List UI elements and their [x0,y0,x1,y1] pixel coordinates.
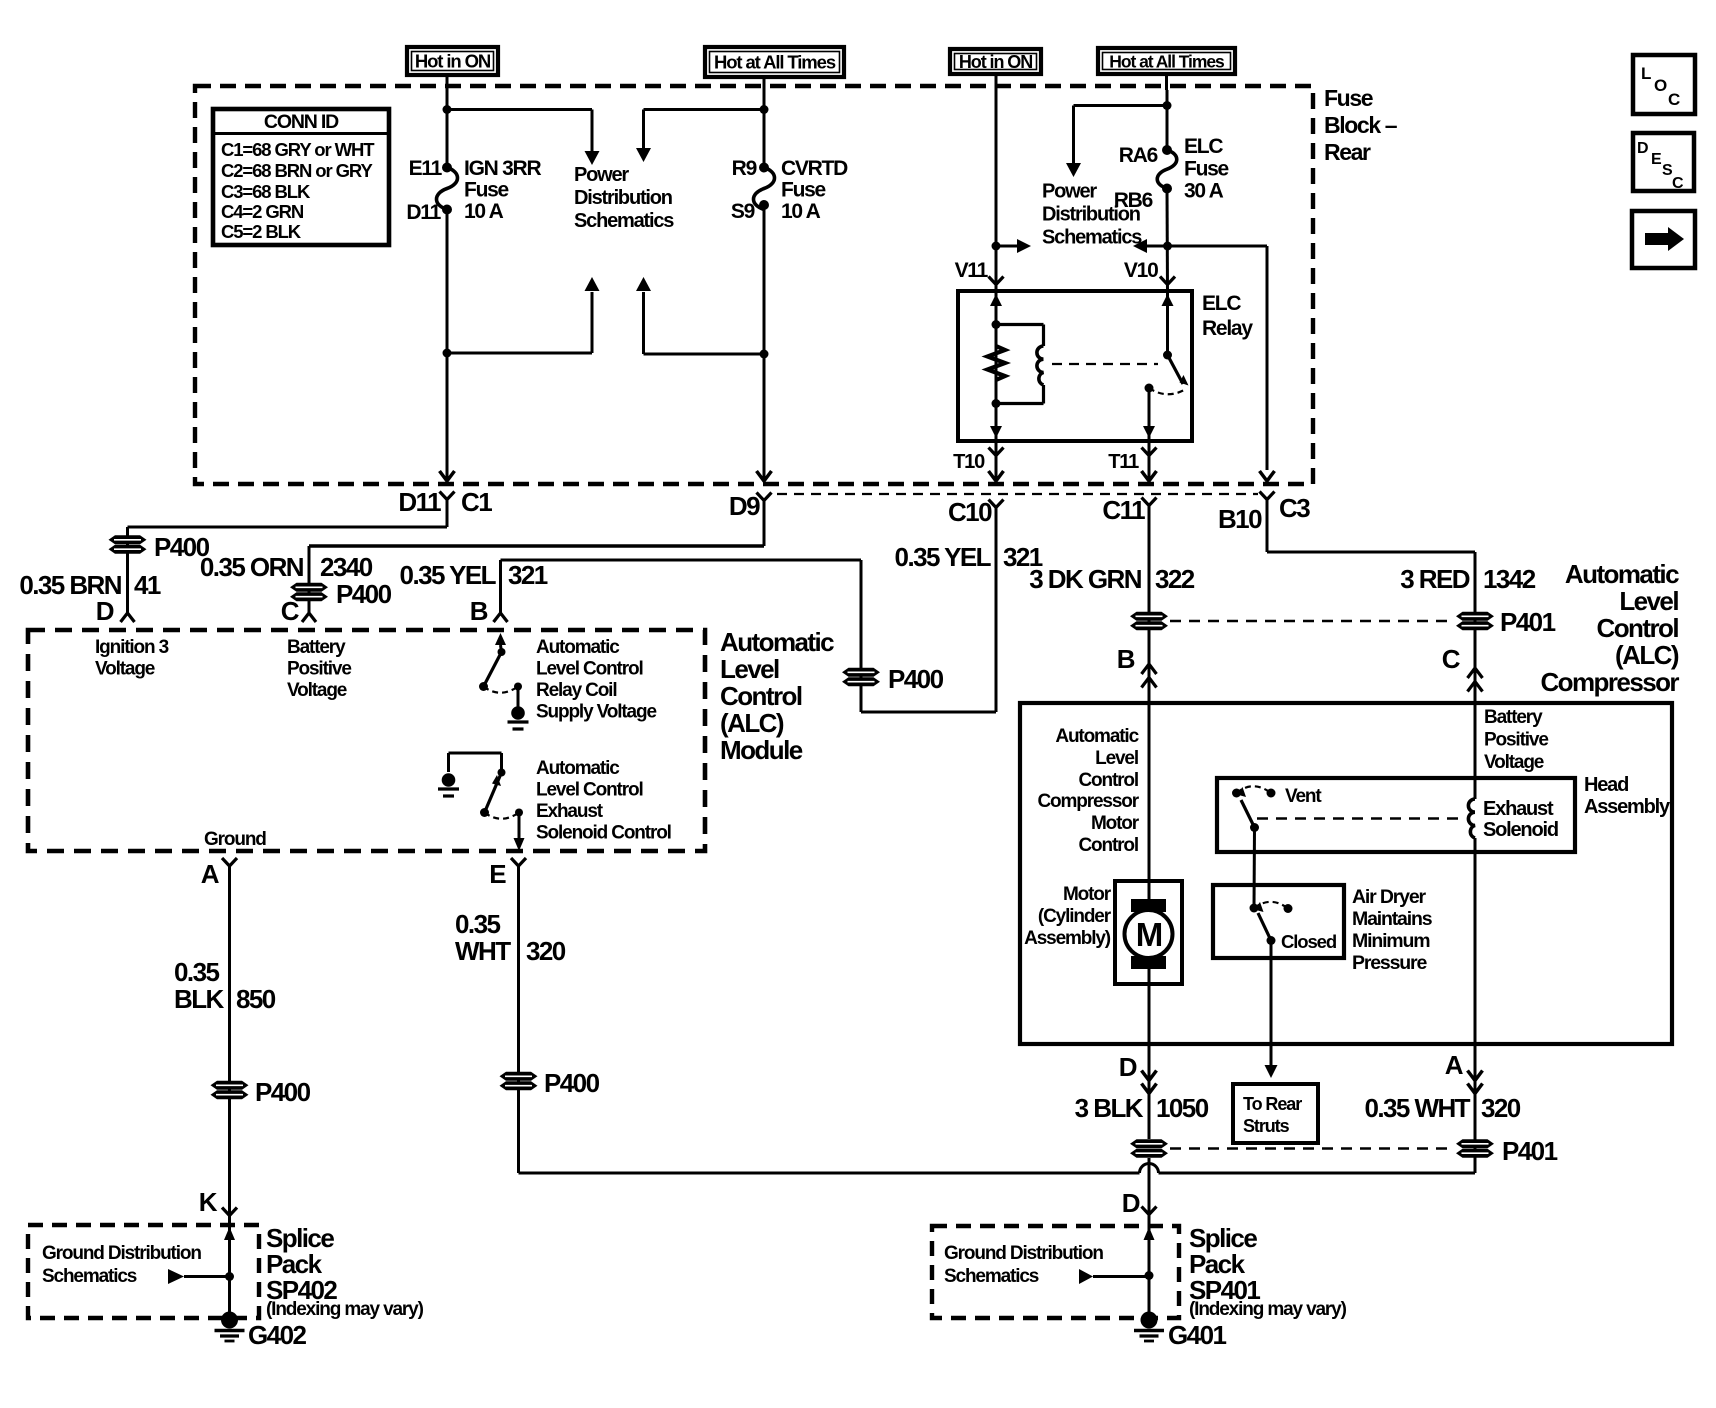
wire 3 RED 1342 from C3 to compressor C [1267,500,1475,800]
svg-text:(Indexing may vary): (Indexing may vary) [266,1299,424,1320]
wire fuse CVRTD down to connector D9 [757,205,772,481]
wire Hot in ON to fuse IGN 3RR [446,75,449,168]
svg-text:321: 321 [508,560,548,590]
label Motor (Cylinder Assembly) [1024,884,1112,949]
relay switch (V10-T11) [1143,291,1189,441]
svg-text:Power: Power [574,164,629,186]
svg-text:Compressor: Compressor [1540,667,1679,697]
label 0.35 YEL 321 (near module) [400,560,548,590]
label Battery Positive Voltage (module) [287,637,351,701]
wire vent switch to air dryer switch [1253,828,1257,909]
wire exhaust solenoid down to pin A [1474,838,1477,1158]
svg-text:Minimum: Minimum [1352,930,1430,952]
power label box Hot at All Times (left) [705,47,844,77]
svg-text:Control: Control [720,681,802,711]
connector T10 [953,448,1003,474]
svg-text:Automatic: Automatic [536,758,620,779]
wire Hot in ON (right) to relay pin V11 [995,74,998,291]
wire 0.35 WHT 320 from module E to compressor A [519,866,1476,1173]
relay mechanical dashed link [1052,363,1158,365]
label 0.35 YEL 321 (near C10) [895,542,1043,572]
label Vent [1285,786,1322,807]
connector pin D splice pack SP401 [1122,1188,1157,1218]
connector P401 on WHT wire (bottom) [1456,1136,1558,1166]
svg-text:A: A [1445,1050,1464,1080]
svg-text:P401: P401 [1502,1136,1558,1166]
label 0.35 WHT 320 (left) [455,909,566,966]
svg-text:ELC: ELC [1202,292,1241,315]
label pin C of module [281,596,300,626]
svg-text:Positive: Positive [287,659,351,680]
svg-text:C3=68 BLK: C3=68 BLK [221,181,311,202]
wire Hot at All Times (right) to ELC fuse [1165,74,1169,150]
svg-text:Module: Module [720,735,803,765]
label box To Rear Struts [1233,1084,1318,1143]
svg-text:WHT: WHT [455,936,511,966]
node junction on IGN feed [443,105,452,114]
svg-text:C: C [1668,90,1680,109]
connector C10 [948,497,1004,527]
wire splice tap SP402 [168,1269,234,1284]
svg-text:2340: 2340 [320,552,373,582]
wire splice tap SP401 [1079,1269,1154,1284]
node junction on CVRTD feed [760,105,769,114]
svg-text:C: C [1442,644,1461,674]
svg-text:C10: C10 [948,497,992,527]
wire T10 through fuse block edge [989,441,1004,481]
svg-text:Level Control: Level Control [536,659,643,680]
relay resistor [988,346,1006,380]
svg-text:Control: Control [1078,835,1138,856]
svg-text:Hot at All Times: Hot at All Times [1109,51,1225,71]
label Closed [1281,931,1337,952]
connector P401 dashed pairing line (bottom) [1170,1147,1455,1149]
svg-text:Exhaust: Exhaust [1483,798,1554,820]
label Automatic Level Control Compressor Motor Control [1037,726,1139,856]
wire 3 DK GRN 322 from C11 to compressor B [1148,506,1151,704]
svg-text:Maintains: Maintains [1352,908,1433,930]
motor M (cylinder assembly) [1115,881,1182,984]
svg-text:C3: C3 [1279,493,1310,523]
label 3 BLK 1050 [1075,1093,1209,1123]
wire up-arrow pair from IGN feed to power distribution [443,277,600,358]
wire compressor C battery feed into head assembly [1474,703,1477,799]
wire arrow toward power distribution (from V11 feed) [996,239,1031,253]
svg-text:A: A [201,859,220,889]
head assembly box [1217,778,1575,852]
svg-text:Level: Level [720,654,779,684]
svg-text:C: C [281,596,300,626]
node junction V10 column to C3 branch [1163,242,1172,251]
svg-text:Schematics: Schematics [42,1266,137,1287]
connector P400 on ORN wire [290,579,392,609]
node junction ELC feed [1163,101,1172,110]
wire compressor D to splice pack SP401 [1148,1158,1151,1312]
svg-text:T10: T10 [953,451,985,473]
CONN ID table [213,109,389,245]
svg-text:Ground: Ground [204,829,266,850]
wire 0.35 ORN 2340 from D9 to ALC module pin C [302,501,764,623]
svg-text:C1: C1 [461,487,492,517]
connector pin A of module [201,858,237,889]
arrow into splice pack SP402 [224,1227,235,1240]
label ELC Relay [1202,292,1253,340]
svg-text:(ALC): (ALC) [1615,640,1679,670]
svg-text:41: 41 [134,570,161,600]
wire 0.35 YEL 321 from C10 to ALC module pin B [494,508,997,713]
mechanical dashed link vent to exhaust solenoid [1257,817,1458,819]
wire Hot at All Times to fuse CVRTD [763,78,766,168]
svg-text:RA6: RA6 [1119,144,1158,167]
label 0.35 BRN 41 [19,570,161,600]
label 0.35 ORN 2340 [200,552,373,582]
svg-text:Level Control: Level Control [536,780,643,801]
wire 0.35 BRN 41 from C1 to ALC module pin D [121,500,448,623]
splice pack SP401 dashed box [932,1226,1179,1318]
ground G402 [215,1312,307,1351]
svg-text:Solenoid Control: Solenoid Control [536,823,671,844]
svg-text:850: 850 [236,984,276,1014]
svg-text:Vent: Vent [1285,786,1322,807]
svg-text:3 DK GRN: 3 DK GRN [1029,564,1142,594]
svg-text:CONN ID: CONN ID [264,111,339,133]
connector D11 C1 [398,487,492,517]
svg-text:IGN 3RR: IGN 3RR [464,157,541,180]
svg-text:Motor: Motor [1063,884,1112,905]
icon forward arrow [1632,211,1695,268]
svg-text:D9: D9 [729,491,760,521]
svg-text:Ground Distribution: Ground Distribution [944,1243,1103,1264]
svg-text:Voltage: Voltage [1484,752,1544,773]
arrow into splice pack SP401 [1144,1227,1155,1240]
label Head Assembly [1584,774,1671,818]
relay ELC box [958,291,1192,441]
svg-text:3 RED: 3 RED [1400,564,1470,594]
svg-text:Air Dryer: Air Dryer [1352,886,1427,908]
svg-text:Fuse: Fuse [781,179,826,202]
label E11 D11 fuse pins [406,157,442,224]
svg-text:Automatic: Automatic [536,637,620,658]
svg-text:D: D [96,596,114,626]
svg-text:Closed: Closed [1281,931,1337,952]
svg-text:C: C [1672,175,1684,192]
label Automatic Level Control Relay Coil Supply Voltage [536,637,656,723]
svg-text:D: D [1637,140,1648,157]
label Power Distribution Schematics (left) [574,164,674,232]
connector V10 [1124,259,1175,285]
power label box Hot in ON (left) [407,47,498,75]
svg-text:Hot in ON: Hot in ON [415,51,491,72]
svg-text:RB6: RB6 [1114,189,1153,212]
label Exhaust Solenoid [1483,798,1558,841]
svg-text:Automatic: Automatic [1565,559,1679,589]
connector P400 on BLK wire [211,1077,311,1107]
svg-text:(Cylinder: (Cylinder [1038,906,1112,927]
pin D of compressor [1119,1044,1157,1139]
label 3 RED 1342 [1400,564,1535,594]
svg-text:Battery: Battery [1484,707,1543,728]
fuse IGN 3RR 10 A [437,163,458,215]
svg-text:(Indexing may vary): (Indexing may vary) [1189,1299,1347,1320]
svg-text:Level: Level [1619,586,1678,616]
svg-text:V10: V10 [1124,259,1158,282]
svg-text:320: 320 [526,936,566,966]
svg-text:C4=2 GRN: C4=2 GRN [221,201,304,222]
svg-text:C1=68 GRY or WHT: C1=68 GRY or WHT [221,139,375,160]
svg-text:B: B [1117,644,1135,674]
label ELC Fuse 30 A [1184,135,1229,203]
svg-text:C11: C11 [1102,495,1145,525]
wire fuse IGN 3RR down to connector C1 [440,210,455,482]
fuse block - rear dashed enclosure [195,86,1313,484]
fuse ELC 30 A [1157,145,1177,194]
icon LOC [1633,55,1695,114]
svg-text:Hot at All Times: Hot at All Times [714,52,836,73]
svg-text:Fuse: Fuse [1324,85,1373,111]
connector C11 [1102,495,1156,525]
pin B of compressor [1117,644,1157,688]
svg-text:To Rear: To Rear [1243,1094,1302,1114]
svg-text:Assembly: Assembly [1584,796,1671,818]
svg-text:Schematics: Schematics [574,210,674,232]
connector V11 [955,259,1004,285]
svg-text:Solenoid: Solenoid [1483,819,1558,841]
label Ignition 3 Voltage [95,637,169,680]
label Splice Pack SP402 [266,1223,424,1320]
svg-text:Exhaust: Exhaust [536,801,604,822]
svg-text:10 A: 10 A [781,200,821,223]
svg-text:G401: G401 [1168,1320,1226,1350]
svg-text:G402: G402 [248,1320,306,1350]
label Automatic Level Control (ALC) Compressor [1540,559,1679,697]
air dryer pressure switch box [1213,885,1344,958]
label RA6 RB6 fuse pins [1114,144,1158,212]
svg-text:C2=68 BRN or GRY: C2=68 BRN or GRY [221,160,373,181]
svg-text:Fuse: Fuse [464,179,509,202]
connector P400 on YEL wire [842,664,944,694]
connector P401 on DK GRN wire [1130,612,1168,630]
coil exhaust solenoid [1468,799,1475,838]
svg-text:Voltage: Voltage [95,659,155,680]
svg-text:0.35: 0.35 [455,909,500,939]
svg-text:Hot in ON: Hot in ON [959,52,1032,72]
ground of relay coil switch [508,706,529,729]
svg-text:Struts: Struts [1243,1116,1290,1136]
svg-text:(ALC): (ALC) [720,708,784,738]
svg-text:D: D [1122,1188,1140,1218]
switch vent (head assembly) [1232,786,1276,832]
svg-text:Supply Voltage: Supply Voltage [536,702,656,723]
svg-text:Control: Control [1078,770,1138,791]
svg-text:0.35 YEL: 0.35 YEL [400,560,497,590]
svg-text:B: B [470,596,488,626]
fuse CVRTD 10 A [754,163,775,211]
connector pin E of module [489,858,526,889]
svg-text:V11: V11 [955,259,989,282]
svg-text:Pressure: Pressure [1352,952,1427,974]
svg-text:0.35 ORN: 0.35 ORN [200,552,304,582]
connector P400 on WHT wire [500,1068,600,1098]
label pin B of module [470,596,488,626]
svg-text:Automatic: Automatic [1055,726,1139,747]
wire branch to power distribution (top left) [447,110,600,166]
svg-text:Head: Head [1584,774,1628,796]
svg-text:P401: P401 [1500,607,1556,637]
svg-text:320: 320 [1481,1093,1521,1123]
svg-text:Distribution: Distribution [574,187,672,209]
wire C3 branch with arrow to power distribution [1133,239,1275,481]
splice pack SP402 dashed box [28,1225,259,1318]
svg-text:0.35 WHT: 0.35 WHT [1364,1093,1470,1123]
svg-text:Level: Level [1095,748,1138,769]
label CVRTD Fuse 10 A [781,157,848,223]
switch ALC relay coil supply [479,633,522,707]
wire T11 through fuse block edge [1142,441,1157,481]
svg-text:Battery: Battery [287,637,346,658]
svg-text:Voltage: Voltage [287,680,347,701]
label IGN 3RR Fuse 10 A [464,157,541,223]
svg-text:1050: 1050 [1156,1093,1209,1123]
svg-text:Power: Power [1042,181,1097,203]
icon DESC [1633,133,1694,192]
relay coil [996,325,1044,404]
power label box Hot in ON (right) [950,49,1041,74]
label R9 S9 fuse pins [731,157,757,223]
label pin D of module [96,596,114,626]
ALC module dashed box [28,630,705,851]
svg-text:D11: D11 [406,201,441,224]
svg-text:Block –: Block – [1324,112,1398,138]
svg-text:Control: Control [1596,613,1678,643]
svg-text:Schematics: Schematics [944,1266,1039,1287]
connector interface dashed line (fuse block bottom) [777,493,1258,495]
svg-text:E11: E11 [409,157,443,180]
svg-text:0.35: 0.35 [174,957,219,987]
label 0.35 WHT 320 (right) [1364,1093,1520,1123]
svg-text:P400: P400 [544,1068,600,1098]
svg-text:0.35 YEL: 0.35 YEL [895,542,992,572]
svg-text:CVRTD: CVRTD [781,157,848,180]
connector D9 [729,491,772,521]
svg-text:O: O [1654,76,1667,95]
svg-text:K: K [199,1187,218,1217]
svg-text:B10: B10 [1218,504,1262,534]
connector pin K splice pack [199,1187,237,1217]
connector P401 on BLK wire (bottom) [1130,1139,1168,1157]
svg-text:ELC: ELC [1184,135,1223,158]
label Power Distribution Schematics (right) [1042,181,1142,249]
svg-text:E: E [1651,151,1662,168]
svg-text:M: M [1136,916,1162,953]
svg-text:Compressor: Compressor [1037,791,1139,812]
pin A of compressor [1445,1044,1483,1139]
svg-text:3 BLK: 3 BLK [1075,1093,1144,1123]
switch ALC exhaust solenoid control [449,753,525,851]
ground of exhaust solenoid switch [438,773,459,796]
wire 0.35 BLK 850 ground lead [228,866,231,1312]
svg-text:P400: P400 [888,664,944,694]
svg-text:P400: P400 [336,579,392,609]
label Automatic Level Control (ALC) Module [720,627,834,765]
label Battery Positive Voltage (compressor) [1484,707,1548,773]
wire branch CVRTD to power distribution (top) [636,110,764,163]
wire ELC fuse down to relay pin V10 [1166,189,1170,292]
label Fuse Block - Rear [1324,85,1398,165]
connector P401 dashed pairing line (top) [1170,620,1455,622]
label Automatic Level Control Exhaust Solenoid Control [536,758,671,844]
svg-text:Positive: Positive [1484,730,1548,751]
svg-text:E: E [489,859,506,889]
svg-text:Motor: Motor [1091,813,1140,834]
svg-text:BLK: BLK [174,984,225,1014]
label 0.35 BLK 850 [174,957,276,1014]
wire up-arrow pair from CVRTD feed to power distribution [636,277,769,359]
svg-text:Relay: Relay [1202,317,1253,340]
switch air dryer (closed) [1250,902,1293,945]
svg-text:Ignition 3: Ignition 3 [95,637,169,658]
wire motor to compressor pin D [1148,969,1151,1044]
label 3 DK GRN 322 [1029,564,1195,594]
svg-text:Automatic: Automatic [720,627,834,657]
svg-text:D11: D11 [398,487,441,517]
relay coil column (V11-T10) [990,291,1002,441]
wire compressor B to motor [1148,703,1151,899]
svg-text:L: L [1641,64,1651,83]
connector T11 [1108,448,1156,474]
connector B10 C3 [1218,492,1310,535]
label Ground (module pin A) [204,829,266,850]
power label box Hot at All Times (right) [1098,48,1235,74]
svg-text:Ground Distribution: Ground Distribution [42,1243,201,1264]
label Ground Distribution Schematics (right) [944,1243,1103,1287]
ALC compressor box [1020,703,1672,1044]
svg-text:322: 322 [1155,564,1195,594]
svg-text:30 A: 30 A [1184,180,1224,203]
svg-text:T11: T11 [1108,451,1139,473]
wire branch ELC feed to power distribution [1066,106,1167,178]
connector P401 on RED wire [1456,607,1556,637]
svg-text:Fuse: Fuse [1184,158,1229,181]
svg-text:C5=2 BLK: C5=2 BLK [221,221,302,242]
pin C of compressor [1442,644,1483,692]
node junction V11 column [992,242,1001,251]
connector P400 on BRN wire [109,532,210,562]
svg-text:S9: S9 [731,200,755,223]
wire air dryer to rear struts [1265,941,1278,1079]
svg-text:R9: R9 [732,157,757,180]
svg-text:Assembly): Assembly) [1024,928,1111,949]
svg-text:Schematics: Schematics [1042,227,1142,249]
svg-text:D: D [1119,1052,1137,1082]
svg-text:Rear: Rear [1324,139,1371,165]
svg-text:1342: 1342 [1483,564,1536,594]
label Air Dryer Maintains Minimum Pressure [1352,886,1433,974]
svg-text:P400: P400 [255,1077,311,1107]
ground G401 [1134,1312,1226,1351]
label Splice Pack SP401 [1189,1223,1347,1320]
label Ground Distribution Schematics (left) [42,1243,201,1287]
svg-text:Relay Coil: Relay Coil [536,680,616,701]
svg-text:10 A: 10 A [464,200,504,223]
